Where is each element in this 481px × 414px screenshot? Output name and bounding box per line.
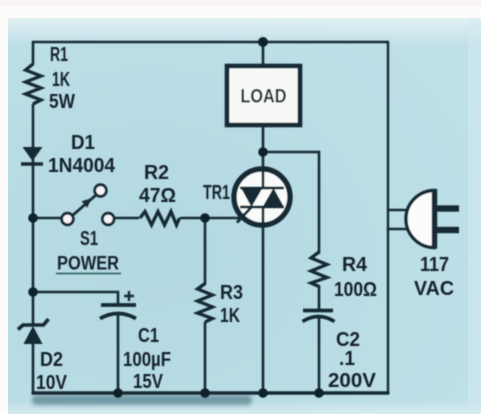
resistor R2 bbox=[140, 212, 180, 226]
LOAD box bbox=[227, 66, 300, 125]
svg-text:15V: 15V bbox=[133, 371, 164, 393]
wire left vertical (D2 to bottom rail) bbox=[32, 344, 35, 393]
diode D1 bbox=[21, 147, 43, 164]
wire load column top bbox=[262, 42, 265, 66]
svg-text:R1: R1 bbox=[50, 44, 68, 66]
node left / C1 branch bbox=[28, 287, 38, 297]
svg-text:C1: C1 bbox=[138, 325, 159, 347]
wire R3 column upper bbox=[204, 218, 207, 284]
svg-text:117: 117 bbox=[420, 254, 449, 276]
svg-text:1K: 1K bbox=[220, 305, 240, 327]
svg-text:.1: .1 bbox=[339, 348, 355, 370]
wire top rail bbox=[33, 41, 388, 43]
wire load to triac bbox=[262, 125, 265, 188]
wire right vertical bbox=[387, 42, 389, 393]
resistor R4 bbox=[311, 252, 327, 287]
bottom smudge bbox=[32, 395, 252, 405]
svg-text:S1: S1 bbox=[80, 228, 98, 250]
svg-text:100µF: 100µF bbox=[123, 349, 171, 371]
svg-text:D1: D1 bbox=[71, 132, 95, 154]
resistor R3 bbox=[198, 284, 213, 323]
wire left vertical (top segment) bbox=[32, 42, 35, 64]
node R4/C2 bottom bbox=[314, 388, 324, 398]
svg-text:R4: R4 bbox=[342, 254, 368, 276]
svg-text:10V: 10V bbox=[36, 372, 68, 394]
wire switch to R2 bbox=[114, 217, 138, 220]
svg-text:47Ω: 47Ω bbox=[139, 185, 176, 207]
wire C1 bottom bbox=[117, 314, 120, 393]
svg-text:POWER: POWER bbox=[57, 254, 119, 275]
zener diode D2 bbox=[18, 319, 49, 344]
svg-text:TR1: TR1 bbox=[203, 182, 230, 204]
wire bottom rail bbox=[33, 391, 388, 394]
svg-text:LOAD: LOAD bbox=[241, 87, 287, 108]
switch S1 bbox=[62, 185, 114, 225]
wire C1 branch bbox=[33, 292, 118, 303]
wire triac bottom bbox=[262, 207, 265, 393]
capacitor C2 bbox=[303, 311, 335, 322]
node C1 bottom bbox=[113, 388, 123, 398]
node load bottom / R4 branch bbox=[258, 147, 268, 157]
wire R3 column lower bbox=[204, 323, 207, 393]
svg-text:R3: R3 bbox=[220, 282, 243, 304]
node top rail / load bbox=[258, 37, 268, 47]
svg-text:D2: D2 bbox=[40, 349, 63, 371]
node gate junction bbox=[200, 213, 210, 223]
svg-text:1K: 1K bbox=[52, 69, 70, 91]
wire R2 to gate junction bbox=[181, 217, 205, 220]
wire plug stub top bbox=[388, 209, 411, 212]
node R3 bottom bbox=[200, 388, 210, 398]
AC plug bbox=[406, 189, 459, 249]
wire C2 bottom bbox=[318, 317, 321, 393]
wire plug stub bottom bbox=[388, 228, 411, 231]
wire R4 to C2 bbox=[318, 286, 321, 309]
svg-text:5W: 5W bbox=[49, 91, 75, 113]
svg-text:VAC: VAC bbox=[414, 278, 454, 300]
node triac bottom bbox=[258, 388, 268, 398]
svg-text:R2: R2 bbox=[144, 162, 169, 184]
wire R4 branch bbox=[263, 152, 319, 253]
svg-text:200V: 200V bbox=[328, 370, 377, 392]
triac TR1 bbox=[234, 168, 290, 227]
node left / switch row bbox=[28, 213, 38, 223]
wire switch row left bbox=[33, 217, 62, 220]
capacitor C1 bbox=[100, 291, 136, 319]
svg-text:100Ω: 100Ω bbox=[334, 279, 377, 301]
resistor R1 bbox=[26, 64, 42, 104]
wire left vertical (R1 to D2) bbox=[32, 105, 35, 323]
svg-text:1N4004: 1N4004 bbox=[48, 155, 116, 177]
wire gate junction to triac bbox=[205, 217, 242, 220]
